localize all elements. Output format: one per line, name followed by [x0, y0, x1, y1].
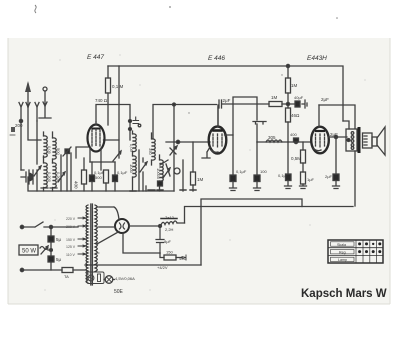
svg-text:220 V: 220 V: [66, 217, 76, 221]
svg-text:Kapsch Mars W: Kapsch Mars W: [301, 288, 387, 300]
svg-text:0,5M: 0,5M: [291, 156, 301, 161]
svg-text:E 447: E 447: [87, 54, 104, 61]
svg-text:1000: 1000: [129, 164, 134, 174]
svg-text:10000: 10000: [156, 168, 161, 180]
svg-text:350: 350: [148, 148, 153, 155]
svg-text:2μF: 2μF: [223, 98, 231, 103]
svg-text:500: 500: [56, 148, 61, 155]
svg-text:Skala: Skala: [337, 243, 346, 247]
svg-text:150 V: 150 V: [66, 238, 76, 242]
svg-text:7a12: 7a12: [165, 215, 175, 220]
svg-text:4,5V/0,06A: 4,5V/0,06A: [115, 276, 135, 281]
svg-text:Lamp: Lamp: [338, 258, 347, 262]
svg-text:0,05: 0,05: [47, 146, 52, 155]
svg-text:110 V: 110 V: [66, 253, 76, 257]
svg-text:740 Ω: 740 Ω: [95, 98, 108, 103]
svg-text:Reg: Reg: [339, 251, 346, 255]
svg-text:0,200: 0,200: [56, 172, 61, 183]
svg-text:2μF: 2μF: [321, 97, 329, 102]
svg-text:200 V: 200 V: [66, 225, 76, 229]
svg-text:0,1μF: 0,1μF: [278, 173, 289, 178]
svg-text:E 446: E 446: [208, 55, 225, 62]
svg-text:E443H: E443H: [307, 55, 327, 62]
svg-text:5μ: 5μ: [56, 237, 62, 242]
svg-text:305: 305: [268, 135, 276, 140]
svg-text:150: 150: [166, 250, 173, 255]
svg-text:400: 400: [290, 132, 297, 137]
svg-text:40μF: 40μF: [294, 95, 304, 100]
svg-text:0,05: 0,05: [129, 144, 134, 153]
svg-text:5μ: 5μ: [56, 257, 62, 262]
svg-text:0,200: 0,200: [47, 172, 52, 183]
svg-text:8μF: 8μF: [164, 239, 172, 244]
svg-text:+4/2V: +4/2V: [157, 265, 168, 270]
svg-text:1M: 1M: [197, 177, 204, 182]
svg-text:50 W: 50 W: [22, 249, 36, 255]
svg-text:45Ω: 45Ω: [179, 256, 186, 261]
svg-text:2,2H: 2,2H: [165, 227, 174, 232]
svg-text:2μF: 2μF: [325, 174, 333, 179]
svg-text:125 V: 125 V: [66, 245, 76, 249]
svg-text:0,1μF: 0,1μF: [236, 169, 247, 174]
svg-text:200: 200: [15, 123, 23, 128]
svg-text:2μF: 2μF: [330, 132, 338, 137]
svg-text:100: 100: [260, 169, 267, 174]
svg-text:TA: TA: [64, 274, 69, 279]
svg-text:0,1μF: 0,1μF: [117, 170, 128, 175]
svg-text:1M: 1M: [271, 95, 278, 100]
svg-text:500: 500: [95, 175, 102, 180]
svg-text:1M: 1M: [291, 83, 298, 88]
svg-text:0,1 M: 0,1 M: [112, 84, 124, 89]
svg-text:400: 400: [74, 181, 79, 189]
svg-text:46Ω: 46Ω: [291, 113, 300, 118]
svg-text:50E: 50E: [114, 289, 124, 295]
svg-text:1μF: 1μF: [307, 177, 315, 182]
